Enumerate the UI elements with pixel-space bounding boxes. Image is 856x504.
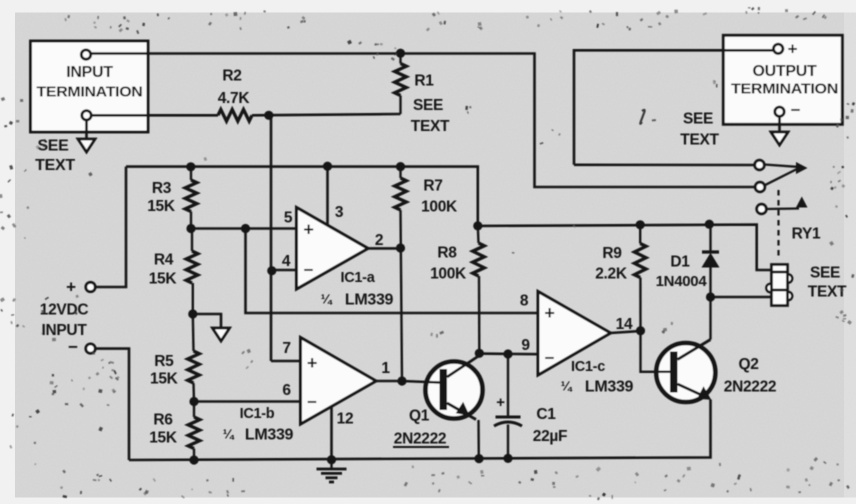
wire: pin-6 line	[194, 400, 301, 403]
label RY1	[792, 226, 821, 243]
op-amp IC1-c	[538, 292, 611, 376]
contact: top (NC)	[755, 160, 765, 170]
ground symbol IC1-b	[317, 460, 347, 482]
label SEE TEXT (relay)	[808, 265, 847, 301]
resistor R4	[186, 229, 198, 315]
svg-text:TEXT: TEXT	[411, 118, 450, 135]
squiggle mark	[640, 110, 644, 124]
transistor Q1	[402, 356, 483, 459]
node: pin9/C1	[503, 349, 512, 358]
wire: bottom ground rail	[129, 400, 711, 461]
wire: NO stub	[766, 207, 799, 210]
terminal: input -	[82, 111, 91, 120]
contact: middle (common)	[755, 182, 765, 192]
label IC1-c	[571, 359, 605, 375]
svg-text:22µF: 22µF	[533, 428, 567, 445]
label R9 2.2K	[595, 245, 628, 283]
terminal: 12VDC +	[86, 282, 95, 291]
svg-text:IC1-b: IC1-b	[240, 406, 275, 422]
svg-text:C1: C1	[536, 406, 556, 423]
label Q1 2N2222	[393, 408, 449, 448]
node: pin-4 tap	[267, 266, 276, 275]
svg-text:+: +	[307, 353, 317, 373]
label R2 4.7K	[218, 68, 251, 108]
wire: pin-9 line	[479, 352, 538, 355]
wire: pin-5 line	[191, 227, 297, 230]
svg-text:R7: R7	[423, 178, 442, 195]
wire: output ground stub	[778, 116, 781, 132]
wire: pin-12 ground leg	[330, 406, 333, 460]
wire: OUTPUT+ feed	[574, 50, 774, 165]
wire: coil bottom line	[711, 296, 773, 299]
terminal: output +	[774, 44, 783, 53]
svg-text:+: +	[496, 394, 505, 411]
svg-text:LM339: LM339	[345, 292, 394, 309]
svg-text:+: +	[544, 303, 554, 323]
svg-text:R1: R1	[414, 73, 434, 90]
svg-text:R3: R3	[152, 180, 172, 197]
svg-text:R5: R5	[154, 353, 174, 370]
wire: -input to ground rail	[93, 349, 129, 460]
svg-text:INPUT: INPUT	[41, 322, 87, 339]
label 12VDC INPUT	[40, 278, 89, 357]
svg-text:¼: ¼	[321, 292, 333, 307]
diode D1	[702, 224, 720, 297]
resistor R8	[473, 226, 485, 353]
capacitor C1	[494, 354, 522, 458]
svg-text:IC1-c: IC1-c	[571, 359, 605, 375]
svg-text:+: +	[303, 220, 313, 240]
label D1 1N4004	[656, 254, 708, 291]
arrow: NO contact	[796, 197, 808, 208]
node: pin5/pin8 tap	[241, 224, 250, 233]
svg-text:TEXT: TEXT	[35, 157, 75, 174]
label output +/-	[788, 40, 801, 120]
svg-text:D1: D1	[670, 254, 690, 271]
resistor R5	[188, 314, 200, 402]
svg-text:3: 3	[335, 204, 344, 221]
dashed link: armature to coil	[777, 190, 779, 260]
wire: +12V top rail	[126, 167, 478, 226]
svg-text:1N4004: 1N4004	[656, 273, 708, 290]
svg-text:15K: 15K	[149, 271, 178, 288]
node: rail/R9	[636, 220, 645, 229]
svg-text:2N2222: 2N2222	[394, 431, 447, 448]
label R4 15K	[149, 252, 178, 288]
svg-text:LM339: LM339	[585, 379, 634, 396]
label Q2 2N2222	[724, 356, 777, 396]
wire: NC lead-in	[574, 164, 755, 167]
node: rail/IC1-b gnd	[327, 455, 336, 464]
label IC1-a	[341, 270, 376, 286]
label 1/4 LM339 (a)	[321, 292, 394, 309]
label C1 22uF	[533, 406, 567, 445]
terminal: output -	[775, 107, 784, 116]
wire: pin-1 output	[376, 380, 402, 383]
op-amp IC1-a	[297, 208, 369, 290]
label IC1-b	[240, 406, 275, 422]
wire: pin-14 output	[611, 331, 641, 333]
node: pin2/R7	[396, 243, 405, 252]
svg-text:INPUT: INPUT	[66, 64, 113, 81]
svg-text:−: −	[304, 261, 314, 280]
svg-text:6: 6	[282, 382, 291, 399]
label R6 15K	[149, 412, 178, 447]
pin labels IC1-b	[282, 340, 390, 428]
node: R4/R5 junction	[188, 309, 197, 318]
svg-text:Q1: Q1	[409, 408, 430, 425]
node: R1/R2 junction	[264, 111, 273, 120]
label R8 100K	[430, 245, 467, 283]
resistor R3	[185, 167, 197, 229]
svg-text:TEXT: TEXT	[808, 284, 847, 301]
relay coil RY1	[766, 265, 792, 306]
label SEE TEXT (input)	[35, 138, 75, 174]
svg-text:4.7K: 4.7K	[218, 90, 251, 107]
wire: input box ground stub	[85, 120, 88, 139]
wire: pin-2 output	[368, 247, 401, 250]
contact: bottom (NO)	[757, 204, 767, 214]
terminal: input +	[81, 50, 90, 59]
svg-text:LM339: LM339	[245, 427, 294, 444]
arrow: NC contact	[796, 162, 808, 174]
wire: relay common feed	[535, 186, 757, 188]
svg-text:7: 7	[282, 340, 290, 357]
op-amp IC1-b	[301, 338, 377, 425]
svg-text:15K: 15K	[149, 430, 178, 447]
node: rail/C1	[503, 454, 512, 463]
label 1/4 LM339 (c)	[561, 379, 634, 396]
node: R3/R4 junction	[186, 224, 195, 233]
transistor Q2	[641, 331, 716, 402]
svg-text:8: 8	[520, 293, 529, 310]
wire: pin-3 V+ line	[326, 166, 329, 226]
label R5 15K	[150, 353, 179, 388]
node: R5/R6 junction	[189, 397, 198, 406]
node: pin1/Q1 base	[397, 376, 406, 385]
svg-text:15K: 15K	[150, 371, 179, 388]
node: rail/D1	[705, 220, 714, 229]
node: rail step	[473, 221, 482, 230]
svg-text:+: +	[66, 278, 76, 297]
svg-text:SEE: SEE	[37, 138, 69, 155]
svg-text:TEXT: TEXT	[680, 132, 719, 149]
svg-text:SEE: SEE	[810, 265, 840, 282]
svg-text:+: +	[788, 40, 798, 59]
node: rail/R6	[189, 455, 198, 464]
svg-text:RY1: RY1	[792, 226, 821, 243]
svg-text:−: −	[791, 101, 801, 120]
svg-text:12: 12	[337, 411, 354, 428]
svg-text:R6: R6	[153, 412, 173, 429]
resistor R1	[395, 54, 407, 115]
node: D1/coil/Q2 junction	[706, 292, 715, 301]
svg-text:TERMINATION: TERMINATION	[37, 84, 143, 101]
svg-text:SEE: SEE	[683, 111, 713, 128]
pin labels IC1-a	[282, 204, 383, 270]
svg-text:¼: ¼	[223, 427, 235, 442]
svg-text:100K: 100K	[421, 199, 458, 216]
wire: blade from common	[765, 169, 798, 186]
pin labels IC1-c	[520, 293, 633, 355]
svg-text:SEE: SEE	[413, 97, 443, 114]
resistor R2	[218, 110, 252, 122]
output termination box	[723, 35, 842, 124]
wire: divider ground stub	[193, 314, 221, 328]
wire: +12V mid rail to relay coil	[478, 225, 772, 270]
label R7 100K	[421, 178, 458, 216]
label R1 SEE TEXT	[411, 73, 450, 136]
svg-text:R9: R9	[602, 245, 622, 262]
svg-text:9: 9	[521, 337, 530, 354]
svg-text:1: 1	[381, 360, 390, 377]
label SEE TEXT (output)	[680, 111, 719, 149]
terminal: 12VDC -	[86, 344, 95, 353]
wire: top input rail from INPUT+ to relay common	[90, 54, 756, 188]
svg-text:OUTPUT: OUTPUT	[753, 63, 818, 80]
svg-text:4: 4	[282, 253, 291, 270]
node: rail/Q1 emitter	[474, 454, 483, 463]
svg-text:2: 2	[375, 232, 383, 249]
svg-text:12VDC: 12VDC	[40, 302, 89, 319]
svg-text:2.2K: 2.2K	[595, 266, 628, 283]
label OUTPUT TERMINATION	[731, 63, 838, 98]
svg-text:R8: R8	[437, 245, 457, 262]
wire: pin-8 route	[246, 229, 539, 314]
svg-text:IC1-a: IC1-a	[341, 270, 376, 286]
svg-text:100K: 100K	[430, 266, 467, 283]
resistor R7	[395, 167, 407, 381]
svg-text:2N2222: 2N2222	[724, 379, 777, 396]
node: rail/R3	[186, 162, 195, 171]
node: pin14/R9/Q2 base	[636, 326, 645, 335]
svg-text:−: −	[545, 349, 555, 368]
ground arrow below input box	[78, 139, 95, 152]
svg-text:R2: R2	[222, 68, 241, 85]
wire: input bottom line to R2 and R1 bottom	[90, 114, 401, 115]
svg-text:R4: R4	[154, 252, 174, 269]
svg-text:15K: 15K	[147, 198, 176, 215]
svg-text:−: −	[68, 338, 78, 357]
node: rail/pin3	[323, 162, 332, 171]
ground arrow at divider	[213, 328, 230, 341]
svg-text:¼: ¼	[561, 379, 573, 394]
label 1/4 LM339 (b)	[223, 427, 294, 444]
resistor R6	[188, 402, 200, 461]
ground arrow below output box	[771, 132, 788, 145]
node: Q1 collector/R8/pin9	[475, 349, 484, 358]
node: top rail/R1	[396, 49, 405, 58]
svg-text:Q2: Q2	[738, 356, 758, 373]
svg-text:−: −	[307, 393, 317, 412]
label INPUT TERMINATION	[37, 64, 143, 101]
wire: signal node vertical to pin4/pin7	[271, 115, 301, 361]
svg-text:5: 5	[284, 210, 293, 227]
svg-text:TERMINATION: TERMINATION	[731, 81, 838, 98]
label R3 15K	[147, 180, 176, 215]
wire: Q2 collector	[709, 297, 711, 340]
wire: +12V input feed	[93, 167, 126, 287]
resistor R9	[634, 225, 646, 331]
node: rail/R7	[396, 162, 405, 171]
input termination box	[31, 41, 149, 132]
wire: blade top	[764, 165, 797, 167]
